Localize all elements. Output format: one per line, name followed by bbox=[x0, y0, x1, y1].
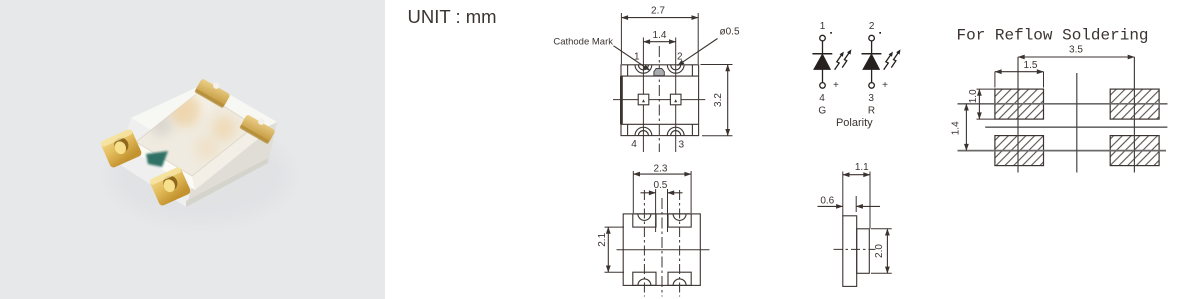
dim 0.5: arrow lines bbox=[641, 192, 656, 194]
LED R: cathode bar bbox=[862, 53, 882, 55]
footprint: pad BR bbox=[1110, 136, 1159, 166]
bottom view: pad centerline left bbox=[643, 190, 645, 297]
top view: notch pin3 outer arc bbox=[667, 127, 684, 135]
LED R: bottom terminal circle pin 3 bbox=[869, 83, 875, 89]
dim 3.2: extension lines bbox=[701, 64, 733, 66]
bottom view: notch arcs bottom bbox=[638, 279, 651, 286]
dim 1.4: dimension line bbox=[643, 41, 675, 43]
footprint: column centerline left bbox=[1017, 57, 1019, 173]
LED G: top wire bbox=[822, 41, 824, 53]
svg-text:ø0.5: ø0.5 bbox=[720, 27, 740, 38]
photo: substrate left face bbox=[117, 118, 200, 207]
photo: gold pad front-left 1 bbox=[100, 128, 143, 168]
top view: thick left edge bbox=[620, 76, 623, 124]
LED G: top terminal circle pin 1 bbox=[820, 35, 826, 41]
svg-text:2.7: 2.7 bbox=[651, 5, 665, 16]
schematic: dot marks bbox=[830, 32, 832, 34]
svg-text:3: 3 bbox=[868, 93, 874, 104]
top view: pin2 extension line bbox=[675, 38, 677, 153]
svg-text:1.1: 1.1 bbox=[855, 162, 869, 173]
top view: notch pin1 outer arc bbox=[635, 65, 652, 73]
bottom view: pad centerline right bbox=[679, 190, 681, 297]
photo: substrate right face bbox=[186, 122, 277, 207]
dim 1.4: dimension line bbox=[965, 104, 967, 151]
top view: notch pin4 inner arc bbox=[638, 131, 648, 136]
bottom view: notch arcs top bbox=[638, 214, 651, 221]
top view: die square 2 bbox=[670, 94, 681, 105]
dim 3.2: dimension line bbox=[727, 65, 729, 136]
svg-text:1.4: 1.4 bbox=[950, 121, 961, 135]
svg-text:2.0: 2.0 bbox=[874, 244, 885, 258]
footprint: column centerline right bbox=[1133, 57, 1135, 173]
footprint: row centerline top bbox=[958, 103, 1168, 105]
top view: vertical centerline bbox=[658, 46, 660, 152]
svg-text:3.2: 3.2 bbox=[713, 93, 724, 107]
svg-text:2.3: 2.3 bbox=[654, 163, 668, 174]
photo: gray background bbox=[0, 0, 385, 299]
top view: bottom band line bbox=[621, 123, 699, 125]
dim 1.0: extension lines bbox=[977, 88, 996, 90]
dim 0.6: arrow lines bbox=[818, 205, 843, 207]
dim 2.1: extension lines bbox=[605, 226, 625, 228]
photo: lens orange glow blob 2 bbox=[212, 116, 236, 140]
top view: notch pin2 inner arc bbox=[671, 65, 681, 70]
dim 1.1: dimension line bbox=[843, 174, 870, 176]
LED G: triangle bbox=[814, 55, 830, 70]
svg-text:G: G bbox=[818, 105, 826, 116]
photo: gold pad top-right 1 bbox=[194, 75, 232, 109]
LED R: light arrow 1 bbox=[884, 55, 891, 70]
svg-text:2: 2 bbox=[677, 52, 683, 63]
svg-text:Cathode Mark: Cathode Mark bbox=[553, 37, 613, 48]
svg-text:1.0: 1.0 bbox=[968, 89, 979, 103]
top view: band end ticks bbox=[627, 65, 629, 76]
LED R: triangle bbox=[863, 55, 879, 70]
footprint: vertical center axis bbox=[1076, 73, 1078, 173]
footprint: row centerline bottom bbox=[958, 150, 1167, 152]
dim 2.7: dimension line bbox=[621, 17, 698, 19]
photo: lens right side face bbox=[192, 126, 258, 190]
photo: lens warm blob low bbox=[195, 136, 219, 160]
dim 0.6: extension tick bbox=[855, 196, 857, 212]
top view: top band line bbox=[621, 75, 699, 77]
svg-text:1.5: 1.5 bbox=[1024, 60, 1038, 71]
footprint: pad TR bbox=[1110, 89, 1159, 119]
svg-text:3.5: 3.5 bbox=[1069, 44, 1083, 55]
photo: lens milky highlight bbox=[181, 89, 211, 119]
dim 1.5: end ticks bbox=[994, 72, 996, 88]
dim 2.7: extension lines bbox=[620, 13, 622, 64]
LED G: light arrow 2 bbox=[842, 53, 849, 68]
svg-text:Polarity: Polarity bbox=[836, 117, 873, 129]
dim 0.5: extension lines bbox=[655, 189, 657, 232]
bottom view: vertical centerline bbox=[661, 198, 663, 297]
svg-text:UNIT : mm: UNIT : mm bbox=[408, 6, 497, 27]
svg-text:4: 4 bbox=[819, 93, 825, 104]
dim 1.5: dimension line bbox=[995, 71, 1044, 73]
photo: substrate bottom edge shading bbox=[186, 158, 268, 207]
LED R: top terminal circle pin 2 bbox=[869, 35, 875, 41]
bottom view: pad TR bbox=[668, 214, 691, 227]
photo: green die bbox=[146, 151, 168, 167]
top view: package outline bbox=[621, 65, 699, 136]
dim 2.0: dimension line bbox=[886, 229, 888, 273]
LED R: top wire bbox=[871, 41, 873, 53]
bottom view: pad BL bbox=[633, 272, 656, 285]
photo: lens top face bbox=[136, 91, 255, 176]
bottom view: pad TL bbox=[633, 214, 656, 227]
dim 1.0: dimension line bbox=[978, 89, 980, 119]
bottom view: horizontal centerline bbox=[617, 249, 710, 251]
svg-text:3: 3 bbox=[679, 139, 685, 150]
photo: gold pad front-left 2 bbox=[149, 166, 192, 206]
svg-text:1: 1 bbox=[634, 52, 640, 63]
top view: cathode mark bbox=[654, 68, 664, 75]
LED G: cathode bar bbox=[812, 53, 832, 55]
footprint: pad TL bbox=[995, 89, 1044, 119]
LED R: light arrow 2 bbox=[891, 53, 898, 68]
footprint: middle axis bbox=[985, 126, 1167, 128]
photo: lens orange glow blob 1 bbox=[169, 94, 201, 126]
svg-text:R: R bbox=[868, 105, 875, 116]
top view: die mark 1 bbox=[642, 99, 645, 102]
top view: die square 1 bbox=[638, 94, 649, 105]
dim 1.1: extension lines bbox=[842, 172, 844, 216]
top view: notch pin3 inner arc bbox=[671, 131, 681, 136]
bottom view: pad BR bbox=[668, 272, 691, 285]
photo: lens left side face bbox=[136, 142, 195, 190]
side view: lead outline bbox=[857, 229, 870, 273]
photo: soft shadow under LED bbox=[110, 127, 290, 223]
LED G: light arrow 1 bbox=[835, 55, 842, 70]
svg-text:1.4: 1.4 bbox=[653, 30, 667, 41]
svg-text:+: + bbox=[882, 80, 888, 91]
dim 2.3: extension lines bbox=[632, 171, 634, 213]
top view: notch pin4 outer arc bbox=[635, 127, 652, 135]
top view: die mark 2 bbox=[674, 99, 677, 102]
top view: notch pin1 inner arc bbox=[638, 65, 648, 70]
svg-text:+: + bbox=[833, 80, 839, 91]
photo: substrate top face bbox=[131, 82, 277, 160]
dim 2.3: dimension line bbox=[633, 173, 691, 175]
svg-text:2: 2 bbox=[869, 21, 875, 32]
svg-text:1: 1 bbox=[820, 21, 826, 32]
photo: lens gray blob bbox=[150, 114, 172, 136]
leader: cathode mark bbox=[614, 46, 651, 71]
svg-text:4: 4 bbox=[631, 139, 637, 150]
svg-text:2.1: 2.1 bbox=[597, 232, 608, 246]
LED G: bottom wire bbox=[822, 69, 824, 82]
top view: notch pin2 outer arc bbox=[667, 65, 684, 73]
top view: pin1 extension line bbox=[642, 38, 644, 153]
bottom view: package outline bbox=[623, 214, 700, 286]
svg-text:0.6: 0.6 bbox=[820, 196, 834, 207]
top view: horizontal centerline bbox=[613, 99, 705, 101]
photo: gold pad top-right 2 bbox=[239, 111, 277, 145]
LED R: bottom wire bbox=[871, 69, 873, 82]
LED G: bottom terminal circle pin 4 bbox=[820, 83, 826, 89]
dim 2.1: dimension line bbox=[607, 227, 609, 272]
dim 3.5: dimension line bbox=[1018, 56, 1134, 58]
footprint: pad BL bbox=[995, 136, 1044, 166]
side view: horizontal centerline bbox=[834, 248, 876, 250]
svg-text:For Reflow Soldering: For Reflow Soldering bbox=[956, 27, 1148, 45]
dim 2.0: extension lines bbox=[871, 228, 892, 230]
svg-text:0.5: 0.5 bbox=[653, 180, 667, 191]
leader: phi 0.5 bbox=[678, 39, 718, 66]
side view: body outline bbox=[843, 216, 857, 287]
